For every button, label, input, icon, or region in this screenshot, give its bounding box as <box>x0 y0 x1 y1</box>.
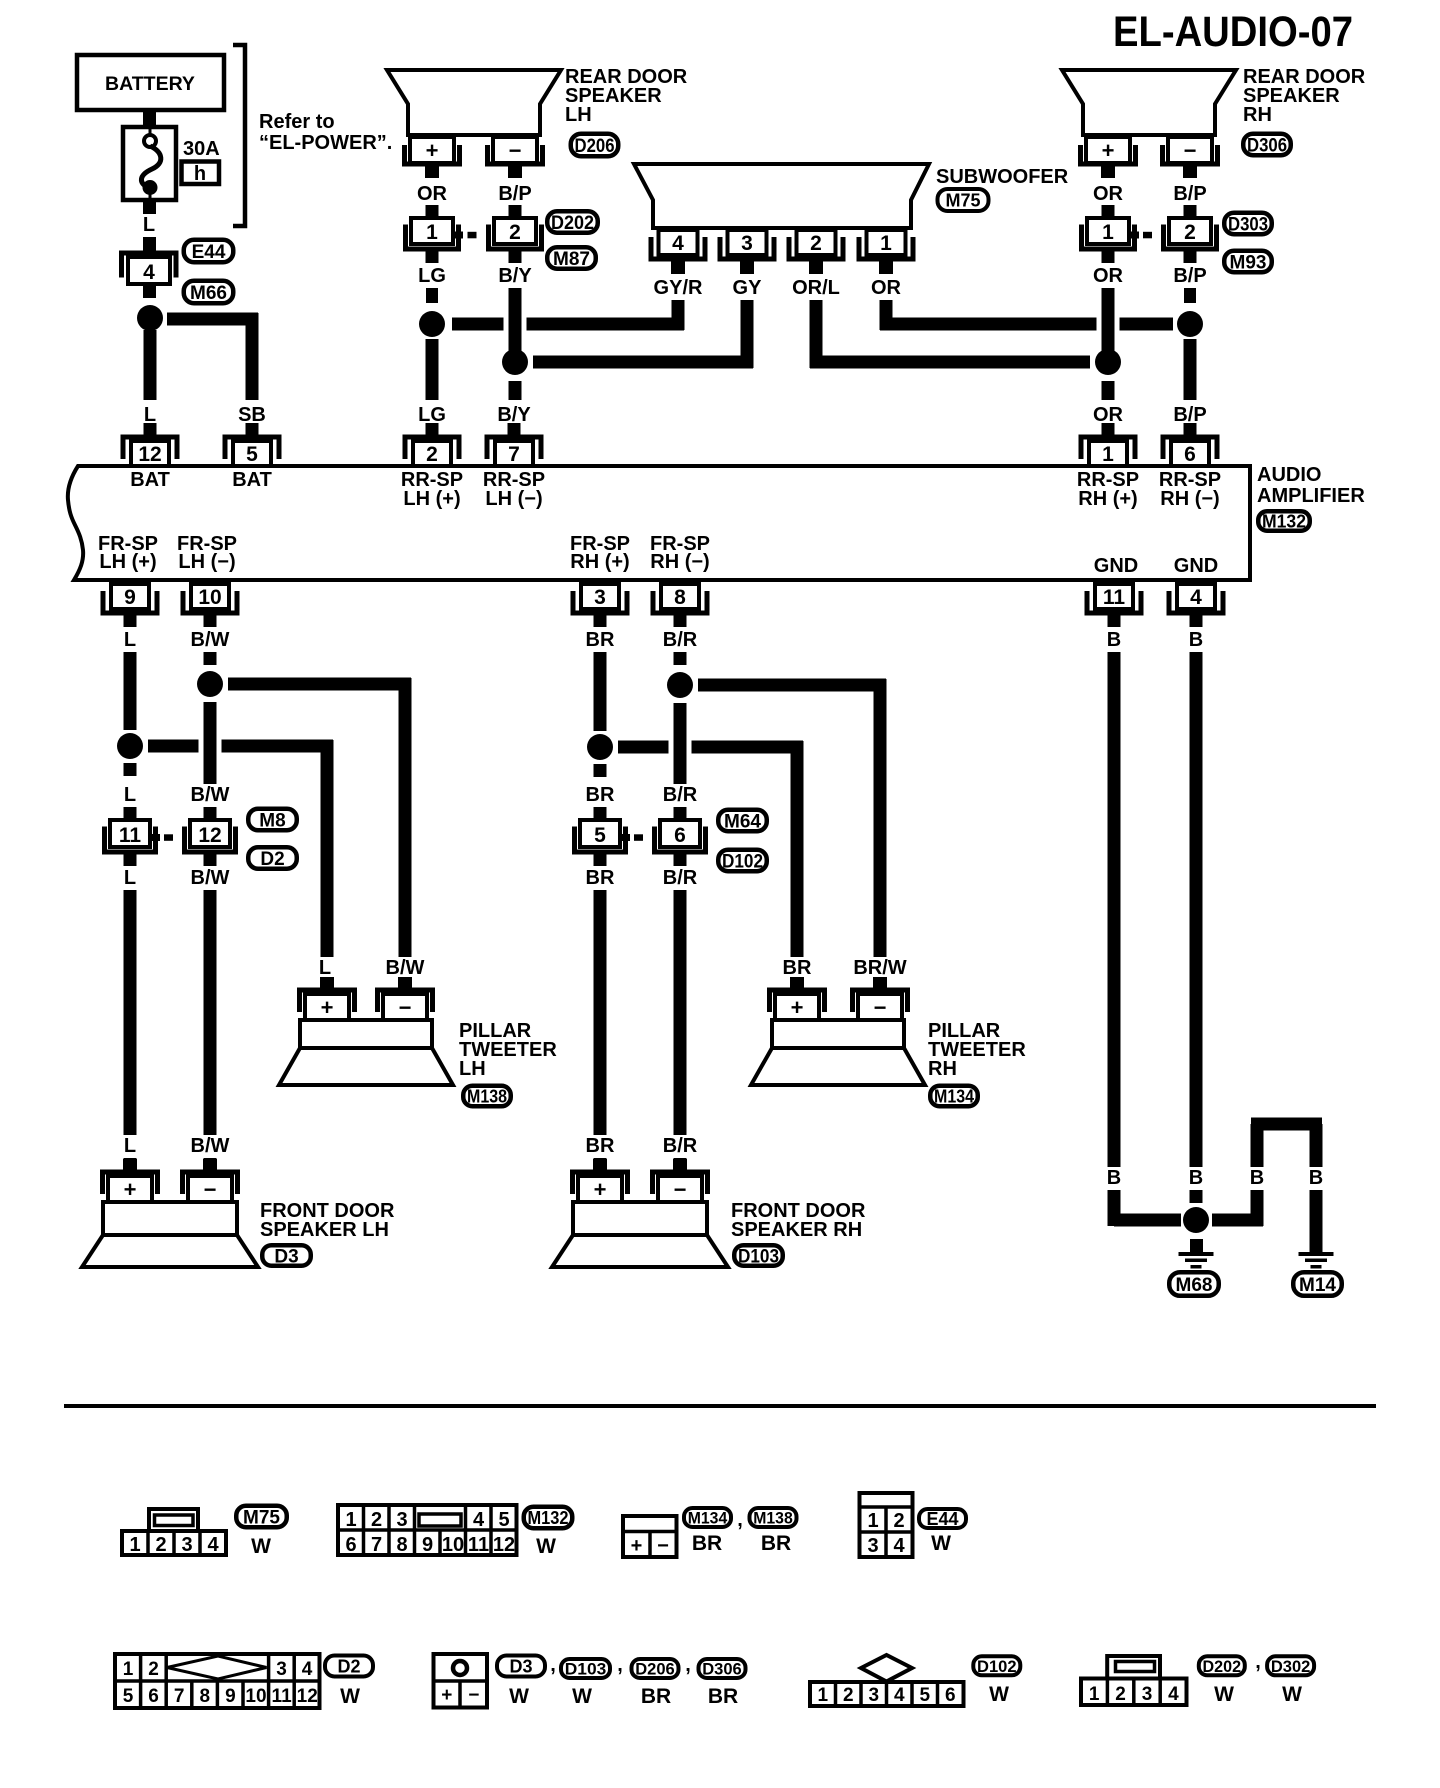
svg-text:B: B <box>1107 629 1121 651</box>
svg-text:GY/R: GY/R <box>654 277 703 299</box>
svg-text:GND: GND <box>1174 555 1218 577</box>
svg-text:1: 1 <box>129 1534 140 1556</box>
svg-text:B/W: B/W <box>191 629 230 651</box>
svg-text:3: 3 <box>741 232 753 255</box>
svg-text:12: 12 <box>493 1534 515 1556</box>
svg-text:BR: BR <box>708 1685 738 1708</box>
svg-text:M75: M75 <box>243 1507 280 1528</box>
svg-text:OR: OR <box>1093 183 1124 205</box>
svg-text:2: 2 <box>509 221 521 244</box>
svg-text:−: − <box>657 1535 669 1557</box>
svg-text:2: 2 <box>148 1659 159 1680</box>
svg-text:30A: 30A <box>183 138 220 160</box>
svg-text:OR: OR <box>1093 265 1124 287</box>
svg-text:−: − <box>468 1685 479 1706</box>
svg-text:9: 9 <box>422 1534 433 1556</box>
svg-text:B/P: B/P <box>1173 265 1206 287</box>
svg-text:D2: D2 <box>337 1656 360 1676</box>
svg-text:LH (−): LH (−) <box>485 488 542 510</box>
svg-text:BR: BR <box>586 1135 615 1157</box>
svg-text:W: W <box>536 1535 556 1558</box>
svg-text:+: + <box>791 995 804 1020</box>
svg-text:EL-AUDIO-07: EL-AUDIO-07 <box>1113 8 1353 56</box>
svg-text:−: − <box>204 1177 217 1202</box>
svg-text:BR: BR <box>586 867 615 889</box>
svg-text:4: 4 <box>473 1509 485 1531</box>
svg-text:5: 5 <box>594 824 606 847</box>
svg-text:3: 3 <box>1142 1684 1153 1705</box>
svg-text:B/P: B/P <box>498 183 531 205</box>
svg-text:2: 2 <box>843 1685 854 1706</box>
svg-text:B/P: B/P <box>1173 404 1206 426</box>
svg-text:B/W: B/W <box>191 1135 230 1157</box>
svg-text:RH (−): RH (−) <box>650 551 709 573</box>
svg-text:4: 4 <box>1190 586 1202 609</box>
svg-text:−: − <box>874 995 887 1020</box>
svg-text:D302: D302 <box>1271 1657 1311 1676</box>
svg-text:W: W <box>1282 1683 1302 1706</box>
svg-text:D306: D306 <box>1247 135 1287 156</box>
svg-text:6: 6 <box>148 1686 159 1707</box>
svg-text:7: 7 <box>174 1686 185 1707</box>
svg-text:−: − <box>509 138 522 163</box>
svg-text:4: 4 <box>302 1659 313 1680</box>
svg-text:LH (+): LH (+) <box>99 551 156 573</box>
svg-text:BAT: BAT <box>130 469 170 491</box>
svg-text:10: 10 <box>442 1534 464 1556</box>
svg-text:M64: M64 <box>724 811 761 832</box>
svg-text:2: 2 <box>1184 221 1196 244</box>
svg-text:Refer to: Refer to <box>259 111 335 133</box>
svg-text:LH: LH <box>459 1058 486 1080</box>
svg-text:+: + <box>441 1685 452 1706</box>
svg-text:B: B <box>1107 1167 1121 1189</box>
svg-text:AUDIO: AUDIO <box>1257 464 1321 486</box>
svg-text:3: 3 <box>181 1534 192 1556</box>
svg-text:1: 1 <box>123 1659 134 1680</box>
svg-text:M93: M93 <box>1230 252 1267 273</box>
svg-text:,: , <box>617 1654 623 1676</box>
svg-text:2: 2 <box>371 1509 382 1531</box>
svg-text:OR/L: OR/L <box>792 277 840 299</box>
svg-text:M8: M8 <box>259 810 285 831</box>
svg-text:4: 4 <box>672 232 684 255</box>
svg-text:2: 2 <box>893 1510 904 1532</box>
svg-text:4: 4 <box>893 1535 905 1557</box>
svg-text:M68: M68 <box>1176 1275 1213 1296</box>
svg-text:6: 6 <box>945 1685 956 1706</box>
svg-text:B/P: B/P <box>1173 183 1206 205</box>
svg-text:M132: M132 <box>1262 511 1306 531</box>
svg-text:,: , <box>550 1654 556 1676</box>
svg-text:D103: D103 <box>565 1660 607 1679</box>
svg-text:3: 3 <box>869 1685 880 1706</box>
svg-text:−: − <box>674 1177 687 1202</box>
svg-text:RH: RH <box>1243 104 1272 126</box>
svg-text:1: 1 <box>1102 221 1114 244</box>
svg-text:4: 4 <box>207 1534 219 1556</box>
svg-text:BATTERY: BATTERY <box>105 73 195 95</box>
svg-text:1: 1 <box>1089 1684 1100 1705</box>
svg-text:B/R: B/R <box>663 784 698 806</box>
svg-text:BR: BR <box>783 957 812 979</box>
svg-text:11: 11 <box>468 1534 489 1556</box>
svg-text:B/R: B/R <box>663 629 698 651</box>
svg-text:3: 3 <box>276 1659 287 1680</box>
svg-text:BAT: BAT <box>232 469 272 491</box>
svg-text:D102: D102 <box>722 851 763 872</box>
svg-text:LH (+): LH (+) <box>403 488 460 510</box>
svg-text:5: 5 <box>123 1686 134 1707</box>
svg-text:M134: M134 <box>688 1509 728 1528</box>
svg-text:4: 4 <box>894 1685 905 1706</box>
svg-text:D202: D202 <box>551 213 594 234</box>
svg-text:RH: RH <box>928 1058 957 1080</box>
svg-text:L: L <box>124 867 136 889</box>
svg-text:W: W <box>251 1535 271 1558</box>
svg-text:4: 4 <box>143 261 155 284</box>
svg-text:RH (−): RH (−) <box>1160 488 1219 510</box>
svg-text:3: 3 <box>396 1509 407 1531</box>
svg-text:LH: LH <box>565 104 592 126</box>
svg-text:RH (+): RH (+) <box>1078 488 1137 510</box>
svg-text:3: 3 <box>594 586 606 609</box>
svg-text:LG: LG <box>418 265 446 287</box>
svg-text:1: 1 <box>1102 443 1114 466</box>
svg-text:BR: BR <box>761 1532 791 1555</box>
svg-text:+: + <box>594 1177 607 1202</box>
svg-text:11: 11 <box>272 1686 293 1707</box>
svg-text:1: 1 <box>345 1509 356 1531</box>
svg-text:4: 4 <box>1168 1684 1179 1705</box>
svg-text:1: 1 <box>880 232 892 255</box>
svg-text:10: 10 <box>198 586 221 609</box>
svg-text:“EL-POWER”.: “EL-POWER”. <box>259 132 392 154</box>
svg-text:−: − <box>1184 138 1197 163</box>
svg-text:8: 8 <box>200 1686 211 1707</box>
svg-text:6: 6 <box>345 1534 356 1556</box>
svg-text:D202: D202 <box>1203 1657 1242 1676</box>
svg-text:+: + <box>321 995 334 1020</box>
svg-text:8: 8 <box>674 586 686 609</box>
svg-text:L: L <box>124 1135 136 1157</box>
svg-text:12: 12 <box>198 824 221 847</box>
svg-text:M66: M66 <box>190 283 227 304</box>
svg-text:D3: D3 <box>509 1656 532 1676</box>
svg-text:7: 7 <box>508 443 520 466</box>
svg-text:AMPLIFIER: AMPLIFIER <box>1257 485 1365 507</box>
svg-text:D206: D206 <box>635 1660 675 1679</box>
svg-text:W: W <box>509 1685 529 1708</box>
svg-text:M138: M138 <box>753 1509 793 1528</box>
svg-text:D102: D102 <box>977 1657 1017 1676</box>
svg-text:5: 5 <box>246 443 258 466</box>
svg-text:M75: M75 <box>945 190 980 210</box>
svg-text:B/W: B/W <box>191 784 230 806</box>
svg-text:W: W <box>989 1683 1009 1706</box>
svg-text:SUBWOOFER: SUBWOOFER <box>936 166 1069 188</box>
svg-text:M14: M14 <box>1299 1275 1336 1296</box>
svg-text:9: 9 <box>124 586 136 609</box>
svg-text:SB: SB <box>238 404 266 426</box>
svg-text:−: − <box>399 995 412 1020</box>
svg-text:L: L <box>124 784 136 806</box>
svg-text:3: 3 <box>867 1535 878 1557</box>
svg-text:8: 8 <box>396 1534 407 1556</box>
svg-text:B: B <box>1189 1167 1203 1189</box>
svg-text:+: + <box>1102 138 1115 163</box>
svg-text:h: h <box>194 163 206 185</box>
svg-text:D206: D206 <box>575 136 615 157</box>
svg-text:B/Y: B/Y <box>498 265 532 287</box>
svg-text:L: L <box>124 629 136 651</box>
svg-text:L: L <box>144 404 156 426</box>
svg-text:1: 1 <box>818 1685 829 1706</box>
svg-text:9: 9 <box>225 1686 236 1707</box>
svg-text:,: , <box>685 1654 691 1676</box>
svg-text:BR/W: BR/W <box>853 957 906 979</box>
svg-text:,: , <box>1255 1651 1261 1673</box>
svg-text:BR: BR <box>586 784 615 806</box>
svg-text:M132: M132 <box>528 1508 569 1528</box>
svg-text:SPEAKER LH: SPEAKER LH <box>260 1219 389 1241</box>
svg-text:E44: E44 <box>926 1509 958 1529</box>
svg-text:12: 12 <box>297 1686 318 1707</box>
svg-text:LH (−): LH (−) <box>178 551 235 573</box>
svg-text:+: + <box>426 138 439 163</box>
svg-text:W: W <box>931 1532 951 1555</box>
svg-text:M138: M138 <box>467 1086 507 1106</box>
svg-text:7: 7 <box>371 1534 382 1556</box>
svg-text:B/Y: B/Y <box>497 404 531 426</box>
svg-text:+: + <box>631 1535 643 1557</box>
svg-text:D303: D303 <box>1228 214 1268 235</box>
svg-text:W: W <box>572 1685 592 1708</box>
svg-text:B: B <box>1309 1167 1323 1189</box>
svg-text:6: 6 <box>1184 443 1196 466</box>
svg-text:12: 12 <box>138 443 161 466</box>
svg-text:LG: LG <box>418 404 446 426</box>
svg-text:BR: BR <box>692 1532 722 1555</box>
svg-text:D3: D3 <box>274 1246 298 1267</box>
svg-text:B/W: B/W <box>386 957 425 979</box>
svg-text:2: 2 <box>155 1534 166 1556</box>
svg-text:D103: D103 <box>738 1246 779 1267</box>
svg-text:L: L <box>143 214 155 236</box>
svg-text:OR: OR <box>1093 404 1124 426</box>
svg-text:2: 2 <box>810 232 822 255</box>
svg-text:D2: D2 <box>260 849 284 870</box>
svg-text:M134: M134 <box>934 1086 974 1106</box>
svg-text:B: B <box>1250 1167 1264 1189</box>
svg-text:5: 5 <box>498 1509 509 1531</box>
svg-text:,: , <box>737 1509 743 1531</box>
svg-text:W: W <box>1214 1683 1234 1706</box>
svg-text:GY: GY <box>733 277 763 299</box>
svg-text:+: + <box>124 1177 137 1202</box>
svg-text:6: 6 <box>674 824 686 847</box>
svg-text:11: 11 <box>119 824 142 847</box>
svg-text:M87: M87 <box>553 249 590 270</box>
svg-text:11: 11 <box>1103 586 1126 609</box>
svg-text:D306: D306 <box>702 1660 742 1679</box>
svg-text:1: 1 <box>867 1510 878 1532</box>
svg-text:L: L <box>319 957 331 979</box>
svg-text:1: 1 <box>426 221 438 244</box>
svg-text:5: 5 <box>920 1685 931 1706</box>
svg-text:B/R: B/R <box>663 867 698 889</box>
svg-text:E44: E44 <box>192 242 226 263</box>
svg-text:RH (+): RH (+) <box>570 551 629 573</box>
svg-text:B/R: B/R <box>663 1135 698 1157</box>
svg-text:W: W <box>340 1685 360 1708</box>
svg-text:10: 10 <box>245 1686 266 1707</box>
svg-text:BR: BR <box>586 629 615 651</box>
svg-text:SPEAKER RH: SPEAKER RH <box>731 1219 862 1241</box>
svg-text:BR: BR <box>641 1685 671 1708</box>
svg-text:GND: GND <box>1094 555 1138 577</box>
svg-text:OR: OR <box>871 277 902 299</box>
svg-text:OR: OR <box>417 183 448 205</box>
svg-text:B/W: B/W <box>191 867 230 889</box>
svg-text:2: 2 <box>1115 1684 1126 1705</box>
svg-text:B: B <box>1189 629 1203 651</box>
svg-text:2: 2 <box>426 443 438 466</box>
